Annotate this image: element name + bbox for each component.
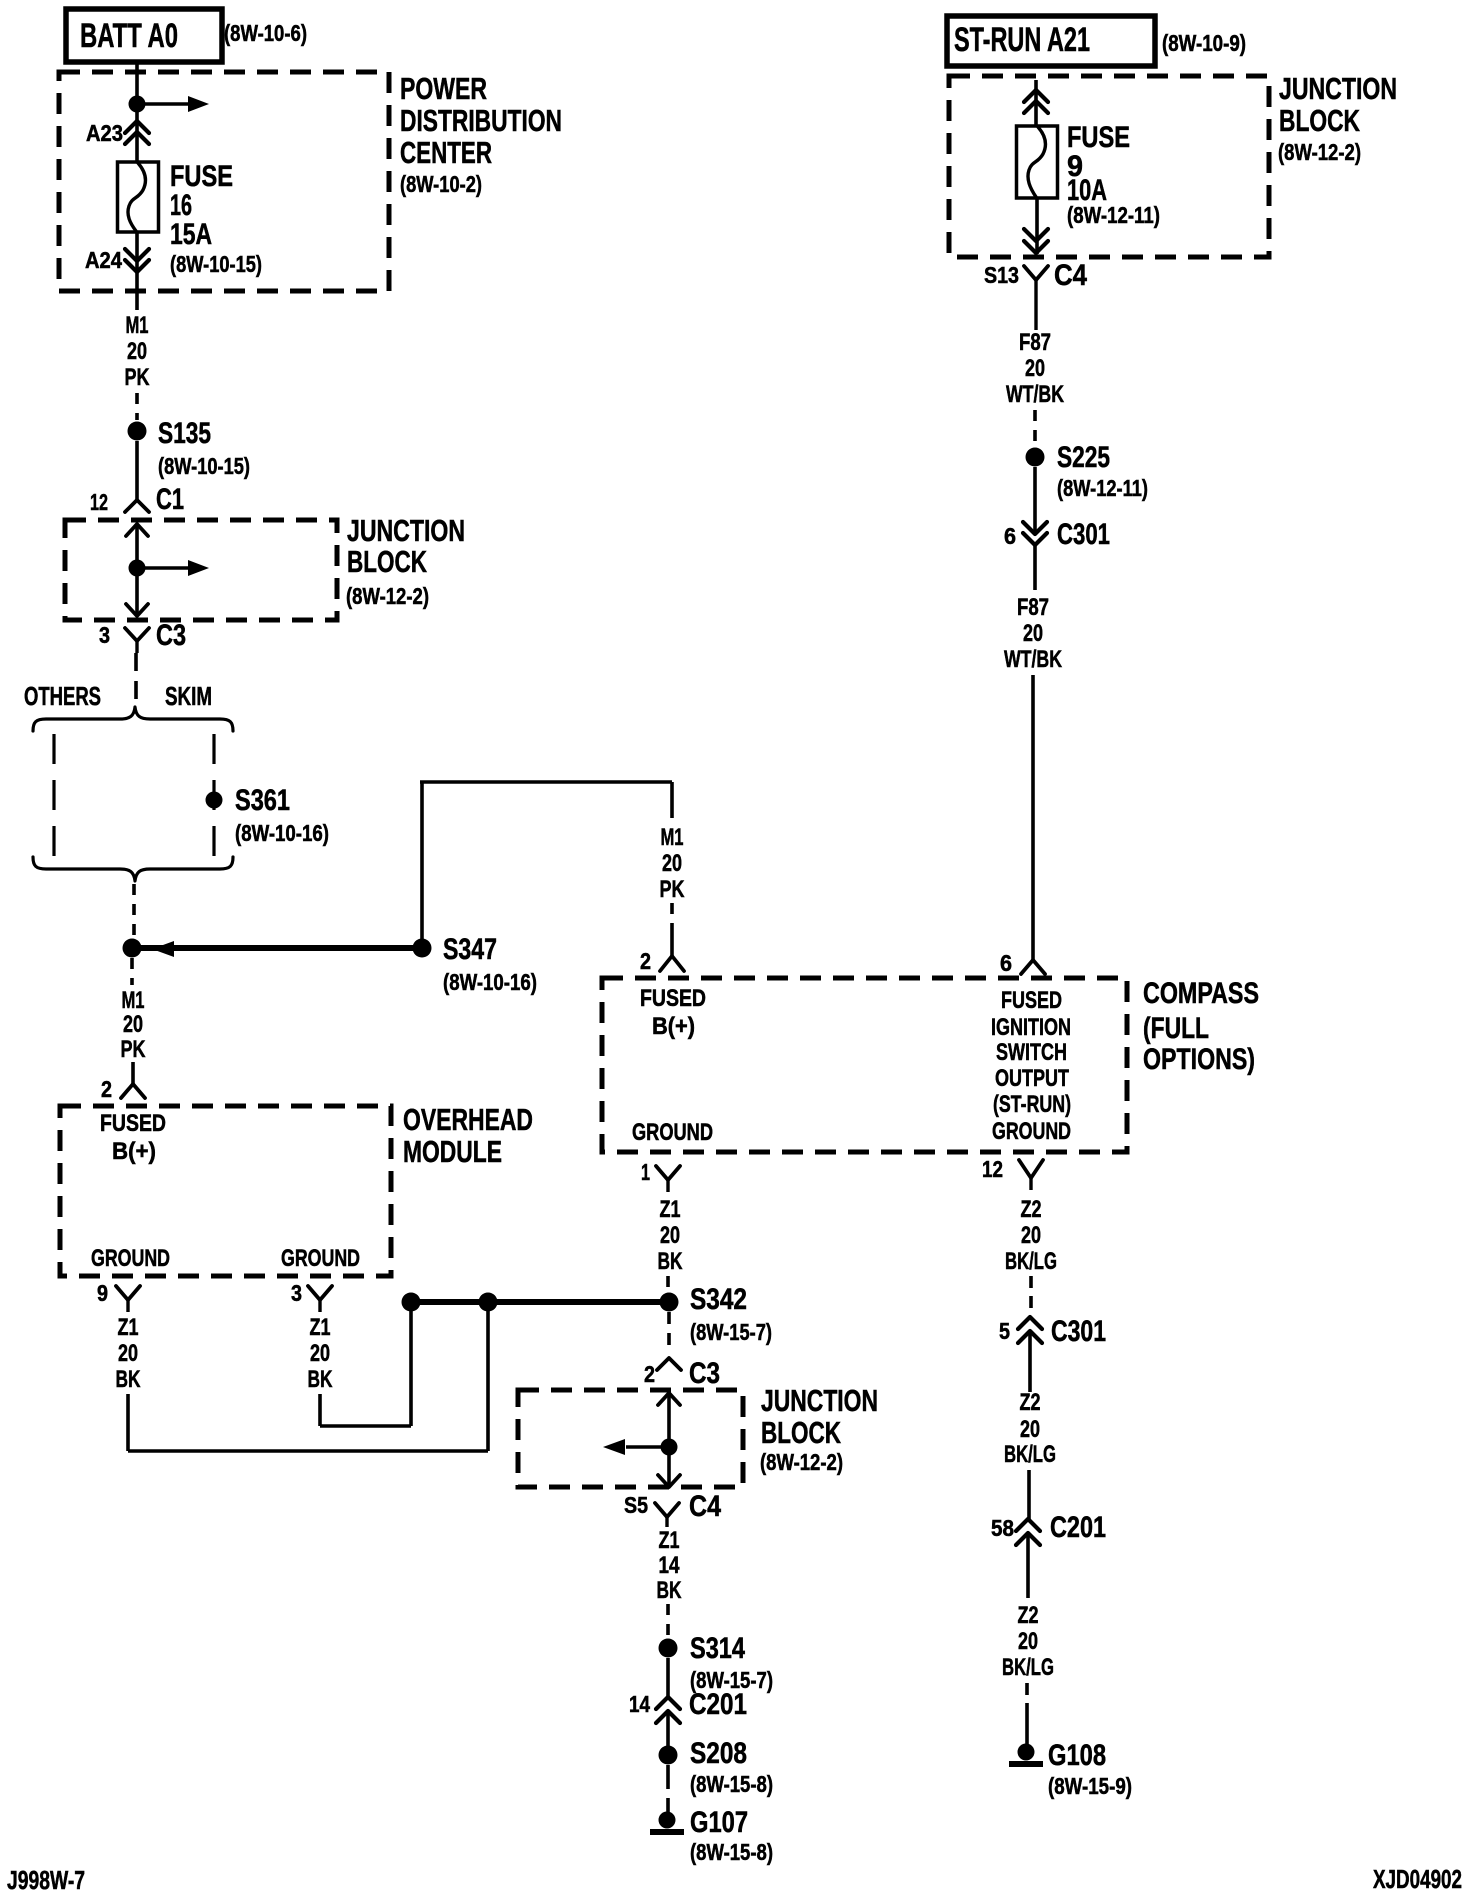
svg-text:3: 3 (291, 1280, 302, 1306)
svg-text:BK: BK (116, 1366, 141, 1393)
svg-text:POWER: POWER (400, 71, 487, 106)
svg-text:BLOCK: BLOCK (761, 1415, 841, 1450)
svg-text:2: 2 (644, 1361, 655, 1387)
svg-text:JUNCTION: JUNCTION (761, 1383, 878, 1418)
splice S347 (413, 939, 432, 958)
fuse 9 10A (1017, 126, 1058, 198)
wire through junction block (135, 524, 139, 616)
wire C301 down (1033, 545, 1037, 590)
svg-text:(8W-12-11): (8W-12-11) (1057, 475, 1148, 501)
svg-text:(8W-15-8): (8W-15-8) (690, 1839, 773, 1865)
svg-text:WT/BK: WT/BK (1004, 646, 1062, 673)
svg-text:GROUND: GROUND (91, 1245, 170, 1272)
svg-text:14: 14 (659, 1552, 681, 1579)
node on ground bus (402, 1293, 421, 1312)
svg-text:S13: S13 (984, 262, 1019, 288)
branch wire OTHERS (52, 734, 55, 858)
bus wire to S347 (132, 945, 422, 951)
svg-text:C3: C3 (689, 1357, 720, 1390)
svg-text:BK: BK (308, 1366, 333, 1393)
svg-text:C1: C1 (156, 483, 184, 516)
ground G107 (659, 1812, 676, 1829)
node in junction block (661, 1439, 678, 1456)
svg-text:A24: A24 (85, 247, 122, 273)
svg-text:BK/LG: BK/LG (1005, 1248, 1057, 1275)
svg-text:DISTRIBUTION: DISTRIBUTION (400, 103, 562, 138)
wire BATT A0 to fuse 16 (135, 62, 139, 162)
wire to splice S135 (135, 393, 139, 420)
ground wire pin 9 to bus (126, 1394, 130, 1451)
svg-text:C301: C301 (1057, 518, 1110, 551)
svg-text:WT/BK: WT/BK (1006, 381, 1064, 408)
svg-text:6: 6 (1000, 950, 1012, 976)
svg-text:20: 20 (1021, 1222, 1041, 1249)
wire to splice S314 (666, 1604, 670, 1636)
svg-text:(8W-15-8): (8W-15-8) (690, 1771, 773, 1797)
svg-text:3: 3 (99, 622, 110, 648)
splice S208 (659, 1746, 678, 1765)
wire S225 to C301 (1033, 467, 1037, 534)
wire to splice node (132, 884, 136, 937)
svg-text:12: 12 (90, 489, 108, 515)
svg-text:C201: C201 (1050, 1511, 1106, 1544)
svg-text:CENTER: CENTER (400, 135, 492, 170)
svg-text:J998W-7: J998W-7 (7, 1865, 85, 1895)
ground G108 (1018, 1744, 1035, 1761)
svg-text:C201: C201 (689, 1688, 747, 1721)
svg-text:COMPASS: COMPASS (1143, 977, 1259, 1010)
svg-text:S135: S135 (158, 417, 211, 450)
svg-text:C301: C301 (1051, 1315, 1106, 1348)
svg-text:M1: M1 (122, 987, 145, 1014)
svg-text:S347: S347 (443, 933, 497, 966)
arrow continuation right (137, 102, 191, 105)
wire C201 down (1026, 1533, 1030, 1598)
svg-text:PK: PK (125, 364, 150, 391)
splice S361 (206, 792, 223, 809)
brace top (33, 707, 233, 731)
svg-text:(ST-RUN): (ST-RUN) (993, 1091, 1071, 1118)
svg-text:(8W-10-9): (8W-10-9) (1162, 30, 1246, 56)
svg-text:BATT A0: BATT A0 (80, 17, 178, 55)
svg-text:9: 9 (97, 1280, 108, 1306)
svg-text:20: 20 (1020, 1416, 1040, 1443)
svg-text:(8W-10-15): (8W-10-15) (158, 453, 250, 479)
svg-text:BK: BK (658, 1248, 683, 1275)
svg-text:Z1: Z1 (660, 1196, 681, 1223)
junction block dashed box (right) (949, 76, 1269, 257)
svg-text:Z2: Z2 (1018, 1602, 1039, 1629)
long wire to compass pin 6 (1031, 675, 1035, 960)
node in PDC (129, 96, 146, 113)
male pin arrow down (126, 604, 148, 616)
svg-text:M1: M1 (126, 312, 149, 339)
svg-text:20: 20 (123, 1011, 143, 1038)
svg-text:S361: S361 (235, 784, 290, 817)
svg-text:(FULL: (FULL (1143, 1012, 1209, 1045)
junction block dashed box (middle) (518, 1390, 743, 1487)
svg-text:20: 20 (127, 338, 147, 365)
svg-text:1: 1 (641, 1159, 650, 1185)
node on ground bus (479, 1293, 498, 1312)
svg-text:BK: BK (657, 1577, 682, 1604)
splice S314 (659, 1639, 678, 1658)
svg-text:A23: A23 (86, 120, 123, 146)
svg-text:14: 14 (629, 1691, 650, 1717)
svg-text:SKIM: SKIM (165, 681, 212, 711)
svg-text:OTHERS: OTHERS (24, 681, 101, 711)
svg-text:20: 20 (1023, 620, 1043, 647)
svg-text:Z1: Z1 (118, 1314, 139, 1341)
svg-text:6: 6 (1004, 523, 1016, 549)
male pin arrow down (658, 1475, 680, 1487)
wire node to overhead module (130, 958, 134, 985)
svg-text:B(+): B(+) (652, 1013, 695, 1040)
svg-text:Z1: Z1 (659, 1527, 680, 1554)
svg-text:(8W-10-16): (8W-10-16) (235, 820, 329, 846)
svg-text:20: 20 (1025, 355, 1045, 382)
svg-text:Z2: Z2 (1021, 1196, 1042, 1223)
svg-text:M1: M1 (661, 824, 684, 851)
svg-text:F87: F87 (1019, 329, 1051, 356)
wire S314 to C201 (666, 1658, 670, 1697)
svg-text:GROUND: GROUND (992, 1118, 1071, 1145)
splice S342 (660, 1293, 679, 1312)
arrow continuation right (137, 566, 191, 569)
svg-text:GROUND: GROUND (281, 1245, 360, 1272)
wire across to compass feed (420, 780, 672, 784)
svg-text:S342: S342 (690, 1283, 747, 1316)
male pin arrow up (658, 1393, 680, 1405)
svg-text:F87: F87 (1017, 594, 1049, 621)
overhead module dashed box (60, 1106, 391, 1276)
svg-text:B(+): B(+) (112, 1138, 156, 1165)
branch wire SKIM (212, 734, 215, 858)
svg-text:20: 20 (310, 1340, 330, 1367)
svg-text:20: 20 (660, 1222, 680, 1249)
wire to ground G108 (1025, 1683, 1029, 1706)
svg-text:BLOCK: BLOCK (1279, 103, 1360, 138)
svg-text:(8W-12-2): (8W-12-2) (346, 583, 429, 609)
svg-text:(8W-12-2): (8W-12-2) (1278, 139, 1361, 165)
svg-text:FUSED: FUSED (640, 985, 706, 1012)
svg-text:G107: G107 (690, 1806, 748, 1839)
fuse 16 15A (118, 162, 159, 232)
svg-text:S5: S5 (624, 1492, 648, 1518)
svg-text:C4: C4 (1054, 259, 1087, 292)
wire to C201 (1027, 1470, 1031, 1519)
svg-text:(8W-10-2): (8W-10-2) (400, 171, 482, 197)
svg-text:12: 12 (982, 1156, 1003, 1182)
svg-text:Z2: Z2 (1020, 1389, 1041, 1416)
ground wire pin 3 to bus (318, 1394, 322, 1426)
svg-text:(8W-15-9): (8W-15-9) (1048, 1773, 1132, 1799)
svg-text:(8W-15-7): (8W-15-7) (690, 1319, 772, 1345)
node on bus wire (123, 939, 142, 958)
wire fuse 16 to PDC edge (135, 232, 139, 310)
node in junction block (129, 560, 146, 577)
power source box BATT A0 (66, 9, 222, 62)
svg-text:PK: PK (660, 876, 685, 903)
svg-text:PK: PK (121, 1036, 146, 1063)
wire to splice S225 (1033, 410, 1037, 446)
wire S208 to ground G107 (666, 1765, 670, 1812)
wire C3 to split (134, 653, 138, 706)
compass dashed box (602, 978, 1127, 1152)
svg-text:JUNCTION: JUNCTION (347, 513, 465, 548)
wire S347 up (420, 782, 424, 939)
svg-text:15A: 15A (170, 218, 212, 251)
wire through junction block (667, 1393, 671, 1487)
wire C201 to S208 (666, 1711, 670, 1746)
svg-text:FUSED: FUSED (100, 1110, 166, 1137)
wire to compass pin 2 (dashed) (670, 903, 674, 929)
svg-text:58: 58 (991, 1515, 1014, 1541)
svg-text:(8W-10-16): (8W-10-16) (443, 969, 537, 995)
svg-text:S208: S208 (690, 1737, 747, 1770)
brace bottom (33, 857, 233, 881)
svg-text:20: 20 (118, 1340, 138, 1367)
svg-text:GROUND: GROUND (632, 1119, 713, 1146)
svg-text:Z1: Z1 (310, 1314, 331, 1341)
svg-text:(8W-12-11): (8W-12-11) (1067, 202, 1160, 228)
svg-text:FUSED: FUSED (1001, 987, 1062, 1014)
power source box ST-RUN A21 (947, 16, 1155, 66)
svg-text:(8W-10-15): (8W-10-15) (170, 251, 262, 277)
svg-text:MODULE: MODULE (403, 1134, 502, 1169)
svg-text:XJD04902: XJD04902 (1373, 1864, 1462, 1894)
wire pin 12 to C301 (1029, 1276, 1033, 1312)
svg-text:OVERHEAD: OVERHEAD (403, 1102, 533, 1137)
wire to compass pin 2 (670, 929, 674, 956)
wire S342 to C3 (667, 1312, 671, 1352)
wire down to label (670, 782, 674, 818)
male pin arrow up (126, 524, 148, 536)
svg-text:BK/LG: BK/LG (1004, 1441, 1056, 1468)
svg-text:OPTIONS): OPTIONS) (1143, 1043, 1255, 1076)
wire ST-RUN to fuse 9 (1034, 80, 1038, 126)
svg-text:2: 2 (101, 1076, 112, 1102)
svg-text:2: 2 (640, 948, 651, 974)
svg-text:C3: C3 (156, 619, 186, 652)
wire pin 1 to S342 (666, 1276, 670, 1290)
wire C301 down (1028, 1331, 1032, 1392)
arrow continuation left (626, 1445, 669, 1448)
power distribution center dashed box (59, 72, 389, 291)
svg-text:SWITCH: SWITCH (996, 1039, 1067, 1066)
svg-text:S225: S225 (1057, 441, 1110, 474)
svg-text:20: 20 (662, 850, 682, 877)
svg-text:S314: S314 (690, 1632, 745, 1665)
svg-text:C4: C4 (689, 1490, 721, 1523)
svg-text:BLOCK: BLOCK (347, 544, 427, 579)
svg-text:JUNCTION: JUNCTION (1279, 71, 1397, 106)
splice S135 (128, 422, 147, 441)
svg-text:(8W-12-2): (8W-12-2) (760, 1449, 843, 1475)
wire S135 to C1 (135, 441, 139, 500)
svg-text:G108: G108 (1048, 1739, 1106, 1772)
svg-text:(8W-10-6): (8W-10-6) (224, 20, 307, 46)
svg-text:OUTPUT: OUTPUT (995, 1065, 1069, 1092)
ground bus wire to S342 (411, 1299, 669, 1305)
svg-text:IGNITION: IGNITION (991, 1014, 1071, 1041)
wire fuse 9 to C4 (1035, 198, 1039, 254)
svg-text:20: 20 (1018, 1628, 1038, 1655)
svg-text:BK/LG: BK/LG (1002, 1654, 1054, 1681)
svg-text:5: 5 (999, 1318, 1010, 1344)
splice S225 (1026, 448, 1045, 467)
junction block dashed box (left) (65, 520, 337, 620)
wire to overhead pin 2 (131, 1062, 135, 1084)
svg-text:ST-RUN A21: ST-RUN A21 (954, 21, 1090, 59)
